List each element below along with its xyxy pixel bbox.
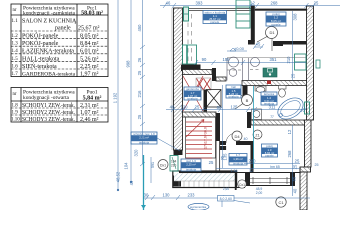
left vertical dim line 998	[130, 0, 132, 183]
svg-text:46: 46	[170, 105, 175, 110]
salon dashed overhang lines	[188, 14, 192, 68]
pokoj1.3 dims	[216, 164, 300, 169]
bottom dim line	[143, 195, 310, 200]
svg-text:26: 26	[137, 57, 142, 62]
svg-text:120: 120	[181, 105, 189, 110]
pokoj1.3 window bay	[240, 172, 295, 186]
svg-text:D1: D1	[269, 30, 275, 35]
svg-text:1,36 m²: 1,36 m²	[233, 157, 243, 161]
svg-text:6,01 m²: 6,01 m²	[80, 49, 99, 55]
table T2 header text	[13, 90, 102, 102]
svg-text:panele: panele	[55, 26, 71, 32]
svg-text:2,00: 2,00	[256, 191, 263, 195]
door C1 bottom	[276, 197, 286, 207]
svg-text:SALON Z KUCHNIĄ: SALON Z KUCHNIĄ	[22, 19, 77, 25]
window right wall teal	[305, 102, 310, 114]
table T1 header text	[13, 6, 104, 17]
svg-text:8,84 m²: 8,84 m²	[80, 41, 99, 47]
right exterior wall upper	[307, 6, 314, 120]
label garderoba	[184, 87, 201, 101]
svg-text:panele: panele	[210, 20, 219, 24]
dim 45 top right small	[256, 42, 261, 47]
right interior dim chain bottom	[292, 125, 294, 196]
left vertical dim chain	[140, 0, 145, 166]
svg-text:kondygnacji -otwarta: kondygnacji -otwarta	[23, 95, 70, 101]
hall left wall	[216, 113, 221, 141]
door Dx1 entrance	[158, 160, 177, 170]
svg-text:ŁAZIENKA-terakota: ŁAZIENKA-terakota	[22, 49, 74, 55]
green window left wall	[184, 7, 189, 21]
svg-text:GARDEROBA-terakota: GARDEROBA-terakota	[22, 72, 76, 78]
washbasin	[255, 86, 266, 92]
svg-text:2,31 m²: 2,31 m²	[139, 136, 149, 140]
svg-text:311: 311	[269, 105, 276, 110]
svg-text:45: 45	[256, 42, 261, 47]
svg-text:SIEŃ-terakota: SIEŃ-terakota	[22, 62, 57, 70]
stairs outline	[186, 117, 216, 158]
svg-text:±0.00: ±0.00	[234, 46, 245, 51]
wardrobe teal ladder top	[236, 0, 250, 28]
svg-text:panele: panele	[271, 23, 280, 27]
svg-text:SCHODY3 ZEW.-terak.: SCHODY3 ZEW.-terak.	[22, 117, 75, 123]
svg-text:2,46 m²: 2,46 m²	[80, 117, 99, 123]
svg-text:Cx1: Cx1	[239, 183, 245, 187]
tick marks 311 line	[253, 107, 305, 112]
door Cx1	[238, 180, 246, 188]
garderoba red X	[183, 76, 203, 111]
wall step down right of garderoba	[212, 68, 216, 81]
svg-text:25: 25	[137, 114, 142, 119]
svg-text:POKÓJ-panele: POKÓJ-panele	[22, 32, 59, 40]
table T1 frame	[11, 4, 108, 77]
hall door swing arc	[226, 133, 236, 143]
label pokoj 1.2	[266, 12, 286, 27]
svg-text:25: 25	[137, 70, 142, 75]
svg-text:hm 65: hm 65	[270, 165, 280, 169]
svg-text:58,03 m²: 58,03 m²	[81, 11, 103, 17]
svg-text:8,05 m²: 8,05 m²	[80, 34, 99, 40]
svg-text:5,84 m²: 5,84 m²	[83, 96, 102, 102]
door D4	[232, 131, 242, 141]
wall salon/pokoj1.2 vertical	[251, 6, 255, 42]
svg-text:5,26 m²: 5,26 m²	[80, 56, 99, 62]
svg-text:1.2: 1.2	[12, 34, 19, 39]
section line teal left	[141, 155, 146, 210]
svg-text:Dx1: Dx1	[160, 164, 166, 168]
svg-text:49: 49	[129, 180, 134, 185]
top wall pokoj 1.2	[255, 9, 307, 11]
bay corner steps left	[237, 173, 245, 188]
bay corner right	[295, 167, 300, 173]
svg-text:2,31 m²: 2,31 m²	[80, 103, 99, 109]
svg-text:D4: D4	[234, 134, 240, 139]
svg-text:12: 12	[249, 169, 253, 173]
svg-text:104: 104	[124, 162, 129, 170]
svg-text:1.3: 1.3	[12, 42, 19, 47]
svg-text:1.7: 1.7	[12, 72, 19, 77]
svg-text:210: 210	[171, 164, 177, 168]
right exterior wall mid	[305, 120, 312, 167]
label pokoj 1.3	[262, 144, 278, 158]
svg-text:2,25 m²: 2,25 m²	[186, 163, 196, 167]
svg-text:210: 210	[286, 56, 291, 64]
svg-text:130: 130	[163, 193, 171, 198]
svg-text:SCHODY2 ZEW.-terak.: SCHODY2 ZEW.-terak.	[22, 110, 75, 116]
svg-text:30: 30	[144, 193, 149, 198]
counter dashed marks	[227, 69, 260, 72]
hall/bath vertical wall upper	[243, 86, 248, 97]
svg-text:Z1: Z1	[255, 134, 259, 138]
level mark 0.00	[227, 46, 247, 51]
svg-text:nr: nr	[13, 92, 17, 97]
svg-text:25: 25	[295, 159, 300, 164]
terrace slab hatch	[174, 173, 236, 181]
kitchen counter divider lines	[227, 58, 249, 81]
kitchen hob circles	[229, 57, 260, 76]
hall/bath vertical wall lower	[247, 112, 251, 128]
svg-text:terakota: terakota	[233, 161, 244, 165]
garderoba/stairs vertical wall	[204, 90, 208, 112]
terrace slab tile row	[174, 181, 236, 187]
terrace slab outline	[173, 171, 237, 188]
svg-text:1.6: 1.6	[12, 64, 19, 69]
tiny bottom level texts	[256, 187, 263, 195]
interior vertical dim pokoj1.2	[292, 11, 294, 81]
slab right border	[235, 171, 237, 190]
svg-text:25: 25	[291, 73, 296, 78]
svg-text:terakota: terakota	[187, 97, 198, 101]
svg-text:46: 46	[166, 1, 171, 6]
svg-text:terakota: terakota	[228, 95, 239, 99]
sien entry corner block	[173, 176, 182, 187]
table T2 dashed row lines	[11, 108, 108, 115]
svg-text:65: 65	[292, 176, 297, 181]
svg-text:panele: panele	[265, 154, 274, 158]
pokoj1.2 bottom wall segments	[248, 40, 307, 46]
svg-text:kondygnacji -zamknięta: kondygnacji -zamknięta	[23, 11, 76, 17]
bathroom door arc	[251, 112, 258, 119]
svg-text:1,07 m²: 1,07 m²	[80, 110, 99, 116]
table T1 rows	[12, 19, 100, 78]
svg-text:1.5: 1.5	[12, 57, 19, 62]
wall sien/pokoj1.3 vertical	[251, 141, 254, 172]
svg-text:1.10: 1.10	[11, 118, 20, 123]
svg-text:90: 90	[202, 57, 207, 62]
svg-text:40: 40	[244, 137, 248, 141]
svg-text:1,36: 1,36	[231, 169, 238, 173]
svg-text:135: 135	[223, 153, 228, 161]
svg-text:terakota: terakota	[186, 167, 197, 171]
svg-text:351: 351	[270, 57, 278, 62]
svg-text:C1: C1	[278, 200, 284, 205]
mid dim line y62	[194, 60, 306, 65]
dim 591 entrance	[151, 157, 155, 183]
svg-text:8,0 2,60: 8,0 2,60	[220, 197, 232, 201]
svg-text:320: 320	[134, 149, 139, 157]
door Z1	[253, 130, 262, 139]
right wall corner step	[300, 167, 311, 172]
svg-text:SCHODY1 ZEW.-terak.: SCHODY1 ZEW.-terak.	[22, 103, 75, 109]
label schody1 outside left	[131, 132, 180, 151]
svg-text:393: 393	[196, 1, 204, 6]
label bottom ellipse	[188, 203, 209, 210]
washer square	[252, 109, 262, 120]
svg-text:998: 998	[126, 60, 131, 68]
label sien	[181, 159, 201, 171]
svg-text:2,25 m²: 2,25 m²	[80, 64, 99, 70]
bathtub	[274, 94, 307, 124]
svg-text:308: 308	[293, 13, 298, 21]
svg-text:terakota: terakota	[139, 140, 150, 144]
kitchen dark unit	[263, 68, 277, 77]
entrance teal door	[170, 156, 178, 172]
label salon	[203, 11, 227, 25]
staircase treads red	[186, 120, 212, 159]
svg-text:125: 125	[231, 105, 239, 110]
svg-text:155: 155	[223, 57, 231, 62]
right side small dim 25	[315, 163, 319, 167]
table T2 frame	[11, 88, 108, 123]
svg-text:25: 25	[314, 1, 319, 6]
svg-text:268: 268	[271, 1, 279, 6]
svg-text:1 192: 1 192	[113, 92, 118, 103]
bathroom bottom wall	[251, 120, 305, 125]
blue dim line along stairs	[222, 85, 224, 168]
svg-text:17x17,6=30,0: 17x17,6=30,0	[204, 127, 208, 149]
svg-text:80: 80	[217, 105, 222, 110]
svg-text:25: 25	[315, 163, 319, 167]
svg-text:1.9: 1.9	[12, 111, 19, 116]
mid dim line y109	[166, 107, 307, 112]
chimney shaft with X	[207, 90, 222, 108]
left vertical dim line 1192	[117, 0, 119, 191]
svg-text:25: 25	[195, 105, 200, 110]
red flue boxes	[196, 78, 211, 90]
svg-text:1.1: 1.1	[12, 19, 19, 24]
svg-text:216: 216	[137, 90, 142, 98]
salon top window band	[183, 9, 252, 11]
svg-text:B: B	[246, 98, 249, 103]
svg-text:12: 12	[287, 129, 292, 134]
red kitchen element	[267, 81, 271, 85]
label hall	[226, 85, 241, 99]
wc toilet	[279, 86, 287, 98]
svg-text:POKÓJ-panele: POKÓJ-panele	[22, 39, 59, 47]
top dim line	[160, 3, 340, 8]
svg-text:12: 12	[250, 1, 255, 6]
svg-text:260: 260	[249, 159, 257, 164]
svg-text:2,60: 2,60	[223, 187, 229, 191]
label lazienka	[261, 92, 277, 106]
left exterior wall	[172, 8, 183, 155]
svg-text:450: 450	[137, 24, 142, 32]
fireplace teal unit	[183, 45, 197, 64]
svg-text:25: 25	[209, 160, 214, 165]
kitchen/bath wall horizontal	[242, 81, 307, 86]
svg-text:25,67 m²: 25,67 m²	[78, 26, 100, 32]
svg-text:1.4: 1.4	[12, 49, 19, 54]
stairs top wall	[183, 112, 217, 117]
small teal outside right	[316, 60, 320, 68]
section line teal mid	[253, 86, 255, 168]
door D1 pokoj1.2	[257, 27, 278, 52]
svg-text:233: 233	[188, 193, 196, 198]
right exterior wall lower	[300, 172, 307, 210]
table T1 dashed row lines	[11, 31, 108, 69]
label wc small	[229, 153, 247, 165]
sien bottom wall band	[179, 171, 237, 174]
fridge teal rects	[295, 54, 307, 62]
wall salon/garderoba horizontal	[183, 70, 213, 75]
svg-text:77: 77	[270, 115, 274, 119]
fireplace black hearth bar	[181, 65, 201, 72]
svg-text:HALL-terakota: HALL-terakota	[22, 56, 60, 62]
kitchen counter top edge	[227, 57, 306, 59]
svg-text:1.8: 1.8	[12, 104, 19, 109]
svg-text:nr: nr	[13, 8, 17, 13]
table T2 rows	[11, 103, 99, 123]
svg-text:591: 591	[151, 162, 155, 168]
svg-text:1,97 m²: 1,97 m²	[80, 72, 99, 78]
bottom boxed label	[218, 196, 251, 208]
hall bottom wall segments	[220, 141, 251, 145]
svg-text:wycieraczka: wycieraczka	[190, 205, 207, 209]
door B hall	[235, 91, 253, 109]
svg-text:268: 268	[287, 150, 292, 158]
svg-text:48,52: 48,52	[116, 171, 121, 182]
svg-text:40: 40	[293, 188, 298, 193]
